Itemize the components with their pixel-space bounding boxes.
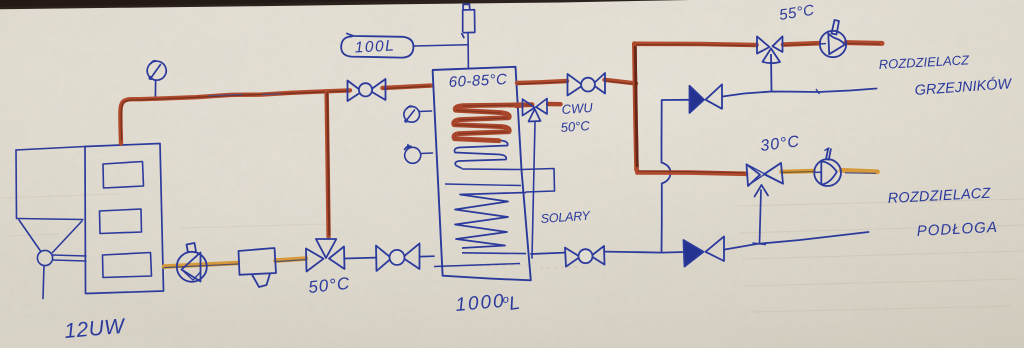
boiler door rectangle 2 bbox=[100, 209, 142, 234]
filter F1 bbox=[239, 248, 277, 287]
3-way mixing valve V5 30C bbox=[747, 163, 784, 186]
3-way valve V7 50C return bbox=[306, 239, 345, 272]
red manifold riser vertical bbox=[634, 44, 636, 170]
faint ghost ruled lines right side bbox=[737, 199, 1024, 312]
check valve CV1 radiators bbox=[690, 84, 723, 113]
tank separator line lower bbox=[434, 264, 520, 267]
red pipe manifold corner to 30C valve bbox=[637, 169, 747, 174]
valve V6 solar line (ball valve) bbox=[565, 246, 605, 267]
tank thermometer gauge G2 bbox=[404, 106, 432, 123]
red pipe ink core bbox=[121, 86, 430, 140]
3-way mixing valve V4 55C bbox=[757, 36, 783, 91]
red pipe pump to manifold label bbox=[846, 40, 882, 46]
boiler K1 fuel hopper bbox=[16, 147, 85, 253]
boiler screw feeder double line bbox=[53, 255, 87, 261]
floor return / solar bottom wire bbox=[531, 253, 565, 254]
valve V1 on supply (globe valve with ball) bbox=[348, 79, 386, 101]
svg-text:1000: 1000 bbox=[455, 291, 507, 316]
radiator return wire bbox=[723, 89, 877, 97]
valve V3 on heating supply (ball valve) bbox=[568, 73, 606, 96]
return wire check valve to corner bbox=[662, 99, 690, 101]
boiler pump P1 bbox=[177, 243, 207, 282]
return junction tick bbox=[816, 89, 820, 94]
blue ink fragments under red main bbox=[208, 94, 281, 96]
wire V8 to tank bbox=[420, 255, 434, 257]
orange pipe 30C valve to pump bbox=[782, 169, 814, 174]
circulation pump P3 (floor) bbox=[814, 148, 841, 186]
red pipe 55C valve to pump bbox=[783, 43, 819, 44]
orange pipe filter to 50C valve bbox=[276, 259, 307, 261]
boiler door rectangle 3 bbox=[103, 253, 152, 278]
junction tick on floor return bbox=[753, 243, 767, 245]
red CWU stub left of mixing valve bbox=[516, 103, 523, 108]
red CWU stub right of mixing valve bbox=[548, 102, 561, 107]
svg-text:100L: 100L bbox=[354, 37, 395, 56]
return riser down with hop over red bbox=[662, 100, 671, 253]
solar coil bottom exit wire bbox=[462, 252, 526, 255]
tank thermometer gauge G3 bbox=[405, 145, 433, 164]
return pipe boiler: orange pipe boiler to filter bbox=[164, 263, 238, 267]
svg-text:CWU: CWU bbox=[561, 100, 594, 117]
table edge dark strip at top bbox=[0, 0, 690, 9]
wire 100L to safety pipe bbox=[414, 45, 468, 46]
boiler feeder drop wire bbox=[43, 266, 44, 299]
solar coil bbox=[455, 193, 526, 249]
red vertical core bbox=[327, 93, 329, 235]
faint ghost marks under tank bbox=[446, 265, 585, 268]
CWU mixing valve V2 (3-way) bbox=[523, 99, 548, 122]
CWU coil blue underdrawing bbox=[454, 105, 533, 169]
safety valve SV bbox=[462, 4, 475, 38]
orange pipe pump to floor label bbox=[841, 170, 878, 172]
check valve CV2 floor return bbox=[684, 236, 725, 266]
red heating supply tank to manifold bbox=[517, 80, 636, 84]
boiler feeder circle bbox=[37, 250, 52, 265]
CWU coil dark core bbox=[455, 105, 531, 134]
boiler door rectangle 1 bbox=[103, 162, 144, 189]
svg-text:50°C: 50°C bbox=[560, 118, 591, 135]
floor mixing arrow wire up into valve bbox=[755, 185, 769, 244]
red vertical drop pipe to 50C valve bbox=[327, 92, 329, 237]
wire 50C valve to V8 bbox=[345, 257, 377, 260]
svg-text:60-85°C: 60-85°C bbox=[448, 71, 508, 91]
tank separator line upper bbox=[445, 184, 521, 186]
expansion vessel 100L pill bbox=[341, 34, 413, 58]
red supply pipe boiler to tank (hot water main) bbox=[120, 86, 431, 144]
CWU cold water wire down bbox=[532, 122, 535, 258]
red pipe riser to 55C valve bbox=[634, 44, 756, 45]
orange pipe ink core bbox=[164, 260, 305, 268]
faint ghost marks left side bbox=[2, 194, 330, 236]
circulation pump P2 (radiators) bbox=[820, 20, 846, 57]
boiler pressure gauge G1 bbox=[147, 61, 166, 97]
valve V8 (ball valve) bbox=[376, 243, 420, 271]
buffer tank 1000L outline bbox=[432, 67, 531, 280]
safety pipe wire down to tank bbox=[467, 33, 469, 69]
boiler K1 body bbox=[85, 144, 164, 294]
coil bottom external loop wire bbox=[462, 169, 555, 193]
CWU coil red marker overtrace bbox=[454, 105, 532, 141]
